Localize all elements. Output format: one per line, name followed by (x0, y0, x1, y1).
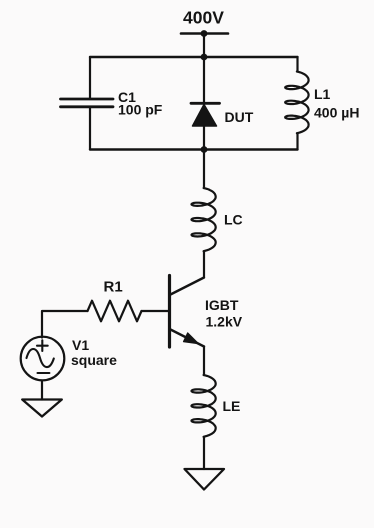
wire supply to top rail (203, 34, 205, 58)
inductor L1 (285, 72, 308, 134)
label IGBT rating (205, 297, 243, 330)
resistor R1 (88, 301, 142, 322)
ground V1 (22, 400, 62, 417)
inductor LE (192, 375, 216, 437)
svg-text:DUT: DUT (225, 109, 254, 125)
svg-text:400V: 400V (183, 8, 224, 28)
svg-text:400 µH: 400 µH (314, 104, 359, 120)
svg-text:V1: V1 (72, 337, 89, 353)
label V1 square (71, 337, 117, 368)
svg-text:LC: LC (224, 211, 243, 227)
svg-text:R1: R1 (104, 279, 123, 296)
svg-text:IGBT: IGBT (205, 297, 239, 313)
power supply bar 400V (181, 32, 228, 35)
wire middle branch upper (203, 57, 205, 103)
wire top rail (90, 56, 298, 58)
junction dot on supply bar (201, 30, 208, 37)
wire base left segment (42, 311, 88, 338)
capacitor C1 (61, 99, 114, 107)
source V1 (21, 337, 65, 381)
wire right branch lower (296, 133, 298, 149)
wire V1 to ground (41, 381, 43, 400)
wire LE to ground (203, 437, 205, 469)
wire bottom rail (90, 148, 298, 150)
ground LE (185, 469, 225, 490)
wire diode to bottom rail (203, 126, 205, 150)
inductor LC (192, 188, 216, 251)
wire bottom rail to LC (203, 150, 205, 188)
svg-text:1.2kV: 1.2kV (206, 314, 243, 330)
junction dot bottom rail (201, 146, 208, 153)
transistor Q1 IGBT (170, 276, 205, 348)
wire right branch upper (296, 57, 298, 71)
svg-text:LE: LE (223, 398, 241, 414)
svg-text:L1: L1 (314, 86, 331, 102)
wire left branch upper (89, 57, 91, 99)
label L1 value (314, 86, 359, 120)
svg-text:square: square (71, 352, 117, 368)
wire left branch lower (89, 107, 91, 150)
junction dot top rail (201, 54, 208, 61)
label C1 value (118, 89, 163, 118)
wire LC to collector (203, 251, 205, 277)
wire base right segment (142, 310, 170, 312)
wire emitter to LE (203, 347, 205, 376)
svg-text:100 pF: 100 pF (118, 102, 163, 118)
diode DUT (191, 103, 220, 126)
